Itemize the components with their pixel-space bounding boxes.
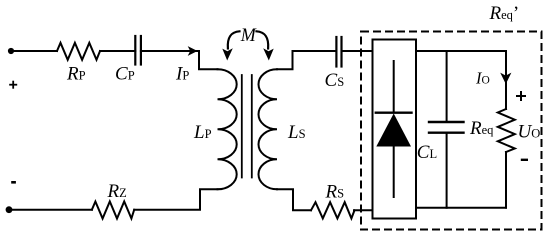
svg-text:IP: IP <box>175 64 189 85</box>
svg-text:M: M <box>240 25 257 46</box>
svg-text:CP: CP <box>115 64 135 85</box>
svg-text:IO: IO <box>475 69 490 88</box>
svg-text:LP: LP <box>193 122 212 143</box>
svg-text:LS: LS <box>287 122 306 143</box>
svg-text:CS: CS <box>325 70 345 91</box>
svg-text:CL: CL <box>417 142 437 163</box>
svg-text:RZ: RZ <box>107 181 127 202</box>
svg-text:Req: Req <box>469 118 494 139</box>
svg-text:RP: RP <box>66 64 86 85</box>
svg-text:Req’: Req’ <box>489 3 520 24</box>
svg-text:RS: RS <box>325 182 345 203</box>
svg-text:UO: UO <box>518 122 541 143</box>
